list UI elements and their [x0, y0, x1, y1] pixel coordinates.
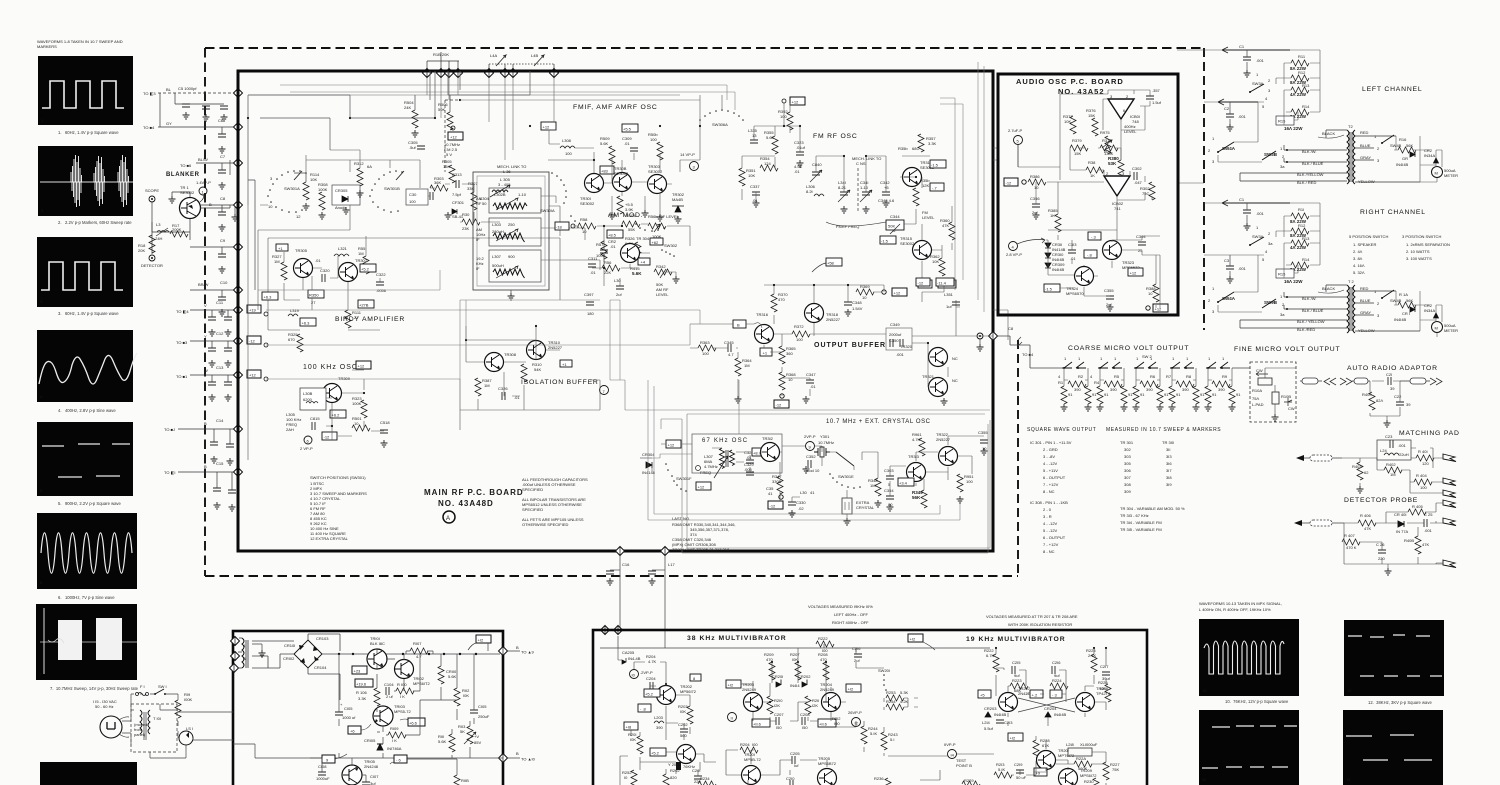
- resistor R401: [1416, 449, 1434, 466]
- diode CR305: [332, 185, 360, 214]
- svg-text:FMRF FREQ: FMRF FREQ: [836, 224, 859, 229]
- feedthrough diamonds top cluster 1: [423, 69, 432, 78]
- svg-text:VOLTAGES MEASURED I9KHz: VOLTAGES MEASURED I9KHz I0%: [808, 604, 873, 609]
- note: voltages measured 19KHz: [808, 604, 873, 625]
- attenuator section 5: [1205, 356, 1242, 411]
- svg-text:-.7: -.7: [932, 186, 937, 191]
- svg-text:4. 400Hz, 2.8V p-p Sine wave: 4. 400Hz, 2.8V p-p Sine wave: [58, 408, 116, 413]
- boxed +12 mv top: [908, 634, 935, 650]
- grounds under fmif row: [609, 212, 616, 219]
- circled 5: [1008, 128, 1023, 167]
- svg-text:F I: F I: [140, 684, 145, 689]
- svg-text:75K: 75K: [1112, 767, 1119, 772]
- svg-text:C2I7: C2I7: [1100, 664, 1109, 669]
- wire rows left ch: [1240, 145, 1344, 185]
- svg-text:85V: 85V: [474, 740, 481, 745]
- svg-text:TR305: TR305: [295, 248, 308, 253]
- transistor TR314: [898, 146, 935, 187]
- svg-text:CR305: CR305: [335, 188, 348, 193]
- svg-text:1.5uf: 1.5uf: [1152, 100, 1162, 105]
- svg-text:I00: I00: [752, 742, 758, 747]
- resistor R51 3.9K: [617, 196, 634, 214]
- capacitor C207: [774, 712, 784, 730]
- transistor TR318: [805, 304, 841, 323]
- svg-text:R35b: R35b: [898, 146, 908, 151]
- svg-text:+12: +12: [1155, 307, 1163, 312]
- label L307: [696, 454, 718, 475]
- svg-text:B: B: [204, 421, 207, 426]
- resistor R243: [881, 732, 898, 750]
- capacitor C303: [884, 468, 894, 487]
- label 4.56: [794, 164, 803, 174]
- resistor R349: [912, 490, 927, 508]
- svg-text:RI09: RI09: [390, 726, 399, 731]
- svg-text:280uH: 280uH: [492, 229, 504, 234]
- svg-text:C6: C6: [218, 118, 224, 123]
- wire: descend to multivibrator: [610, 556, 665, 630]
- svg-text:L30: L30: [800, 490, 807, 495]
- svg-text:+83: +83: [601, 169, 609, 174]
- feedthrough mv top 1: [601, 626, 610, 635]
- resistor R11 right: [1290, 207, 1309, 224]
- wire ps rails: [252, 634, 500, 700]
- svg-text:- .8: - .8: [640, 707, 647, 712]
- svg-text:25: 25: [1138, 248, 1143, 253]
- svg-text:4Λ 22W: 4Λ 22W: [1290, 245, 1307, 250]
- svg-text:+.2: +.2: [1032, 693, 1038, 698]
- resistor bank R209: [764, 652, 775, 680]
- svg-text:BLACK: BLACK: [1322, 131, 1335, 136]
- resistor R307: [467, 181, 478, 210]
- resistor R222 top: [816, 636, 834, 653]
- node C9 row: [190, 238, 238, 273]
- svg-text:CI05: CI05: [478, 704, 487, 709]
- capacitor C355 audio: [1104, 288, 1114, 311]
- wire: long top bus extension: [248, 78, 700, 160]
- svg-text:4.7: 4.7: [416, 654, 422, 659]
- svg-text:IIVP-P: IIVP-P: [944, 742, 956, 747]
- svg-text:L17: L17: [668, 562, 675, 567]
- svg-text:8.2t: 8.2t: [806, 189, 814, 194]
- svg-text:-.8: -.8: [1087, 253, 1092, 258]
- svg-text:2uf: 2uf: [616, 292, 622, 297]
- svg-text:TR307: TR307: [355, 258, 368, 263]
- svg-text:+5.2: +5.2: [645, 692, 654, 697]
- svg-text:C3I3: C3I3: [1068, 242, 1077, 247]
- svg-text:C2I: C2I: [1386, 372, 1392, 377]
- svg-text:C840: C840: [812, 162, 822, 167]
- svg-text:C350: C350: [889, 338, 899, 343]
- svg-text:TR 3I0: TR 3I0: [1162, 440, 1175, 445]
- svg-text:5.6K: 5.6K: [600, 141, 609, 146]
- svg-text:+12: +12: [358, 364, 366, 369]
- coax segment adaptor out: [1400, 378, 1442, 385]
- resistor R365: [779, 346, 796, 364]
- svg-text:IN4I4: IN4I4: [790, 683, 800, 688]
- svg-text:CW: CW: [1256, 368, 1263, 373]
- svg-text:470: 470: [820, 657, 827, 662]
- svg-text:C518: C518: [380, 420, 390, 425]
- resistor R506 50K: [438, 95, 460, 140]
- svg-text:19 KHz MULTIVIBRATOR: 19 KHz MULTIVIBRATOR: [966, 636, 1066, 643]
- resistor R244: [861, 726, 878, 744]
- svg-text:IN4I4B: IN4I4B: [1052, 267, 1065, 272]
- svg-text:3. 100 WATTS: 3. 100 WATTS: [1406, 256, 1432, 261]
- resistor R392: [778, 109, 793, 130]
- svg-text:.01: .01: [746, 455, 752, 460]
- svg-text:R1: R1: [1058, 380, 1064, 385]
- circled 14 test point: [944, 742, 972, 768]
- resistor R230: [1084, 778, 1099, 785]
- resistor R203: [678, 704, 693, 724]
- boxed -12: [247, 336, 268, 347]
- capacitor C342: [880, 180, 890, 195]
- svg-text:BR/W: BR/W: [198, 282, 209, 287]
- svg-text:820: 820: [670, 775, 677, 780]
- svg-text:- 6: - 6: [396, 758, 401, 763]
- svg-text:TO ■4: TO ■4: [1022, 352, 1034, 357]
- svg-text:C207: C207: [774, 712, 784, 717]
- svg-text:+I2: +I2: [910, 637, 916, 642]
- svg-text:R386: R386: [1030, 174, 1040, 179]
- boxed +1 iso: [560, 360, 572, 367]
- wire mv left section: [618, 648, 918, 756]
- svg-text:MECH. LINK TO: MECH. LINK TO: [497, 164, 526, 169]
- svg-text:CRYSTAL: CRYSTAL: [856, 505, 875, 510]
- svg-text:3I6: 3I6: [1166, 461, 1172, 466]
- svg-text:100: 100: [409, 199, 416, 204]
- svg-text:C 26: C 26: [1376, 542, 1385, 547]
- boxed -115: [880, 236, 896, 244]
- svg-text:L4A: L4A: [490, 53, 497, 58]
- resistor R387: [475, 378, 492, 396]
- svg-text:5.6K: 5.6K: [448, 674, 457, 679]
- svg-text:TR316: TR316: [756, 312, 769, 317]
- svg-text:R236: R236: [874, 776, 884, 781]
- capacitor C356: [1030, 196, 1040, 219]
- svg-text:SW20I: SW20I: [878, 668, 890, 673]
- svg-text:5.6K: 5.6K: [632, 271, 642, 276]
- svg-text:2 - 0: 2 - 0: [1043, 507, 1052, 512]
- svg-text:.01: .01: [315, 258, 321, 263]
- svg-text:R11: R11: [1298, 54, 1306, 59]
- svg-text:LEVEL: LEVEL: [1124, 129, 1137, 134]
- svg-text:10K: 10K: [748, 173, 755, 178]
- wire fm rf: [742, 103, 952, 284]
- svg-text:.001: .001: [1238, 266, 1247, 271]
- svg-text:2N5227: 2N5227: [826, 317, 841, 322]
- svg-text:FMIF, AMF AMRF OSC: FMIF, AMF AMRF OSC: [573, 104, 658, 111]
- resistor R229 bottom: [962, 778, 980, 785]
- svg-text:6 - OUTPUT: 6 - OUTPUT: [1043, 475, 1066, 480]
- resistor R369: [856, 284, 874, 300]
- pot 50K box: [886, 220, 904, 234]
- resistor R310: [521, 362, 542, 382]
- svg-text:AM MOD.: AM MOD.: [608, 212, 643, 219]
- svg-text:R 106: R 106: [356, 690, 367, 695]
- resistor R236 bottom: [874, 776, 891, 785]
- svg-text:1M: 1M: [358, 251, 364, 256]
- svg-text:+27B: +27B: [359, 303, 369, 308]
- svg-text:38 KHz MULTIVIBRATOR: 38 KHz MULTIVIBRATOR: [687, 635, 787, 642]
- svg-text:C23: C23: [1385, 434, 1393, 439]
- transistor TR313: [907, 454, 926, 482]
- resistor R400: [1362, 392, 1383, 410]
- capacitor C397: [584, 292, 594, 316]
- svg-text:NO. 43A48D: NO. 43A48D: [438, 499, 494, 508]
- capacitor C3 right: [1224, 255, 1247, 283]
- svg-text:C9: C9: [220, 238, 226, 243]
- diode CR204: [1044, 706, 1067, 717]
- svg-text:2uf: 2uf: [1106, 302, 1112, 307]
- resistor R114: [294, 172, 320, 210]
- resistor R372: [792, 324, 810, 342]
- svg-text:5 POSITION SWITCH: 5 POSITION SWITCH: [1349, 234, 1388, 239]
- transistor TR203: [742, 682, 763, 712]
- detector terminal: [141, 255, 163, 268]
- resistor R16 SW4B left: [1381, 135, 1416, 153]
- wire mv top rail: [600, 630, 990, 652]
- resistor R12: [1290, 70, 1309, 85]
- svg-text:C344: C344: [890, 214, 900, 219]
- svg-text:panel): panel): [134, 732, 146, 737]
- svg-text:4.7K: 4.7K: [648, 659, 657, 664]
- resistor R303 36K: [430, 176, 448, 191]
- svg-text:TR 304: TR 304: [636, 236, 650, 241]
- svg-text:R38: R38: [1088, 160, 1096, 165]
- svg-text:L302B: L302B: [494, 192, 506, 197]
- capacitor C305: [408, 140, 425, 150]
- resistor R305 15K: [442, 159, 455, 183]
- svg-text:1K: 1K: [1090, 173, 1095, 178]
- coax segment adaptor: [1352, 378, 1370, 384]
- audio osc P.C. board outline NO. 43A52: [998, 74, 1178, 315]
- boxed 8: [690, 674, 701, 681]
- svg-text:50 uF: 50 uF: [1016, 775, 1027, 780]
- boxed -1.5 fm: [930, 160, 946, 168]
- wire left ch meter: [1204, 50, 1442, 182]
- terminal -12 67k: [768, 495, 783, 509]
- svg-text:3I8: 3I8: [1166, 475, 1172, 480]
- diode CR1 left: [1396, 152, 1415, 167]
- boxed +6: [348, 724, 371, 734]
- svg-text:C14: C14: [216, 418, 224, 423]
- feedthrough C8: [234, 201, 243, 210]
- svg-text:47K: 47K: [1422, 542, 1429, 547]
- svg-text:+12: +12: [249, 373, 257, 378]
- svg-text:.02: .02: [798, 506, 804, 511]
- svg-text:3I9: 3I9: [1166, 482, 1172, 487]
- capacitor C25: [1424, 512, 1433, 533]
- resistor R403: [1352, 462, 1369, 493]
- svg-text:2 - GRD: 2 - GRD: [1043, 447, 1058, 452]
- svg-text:+12: +12: [698, 485, 706, 490]
- svg-text:+12: +12: [1130, 271, 1138, 276]
- svg-text:39: 39: [1390, 386, 1395, 391]
- svg-text:2. 2.2V p-p Markers, 60Hz Sw: 2. 2.2V p-p Markers, 60Hz Sweep rate: [58, 220, 132, 225]
- resistor R18: [138, 235, 155, 253]
- transistor TR307 birdy: [339, 258, 377, 282]
- svg-text:TR3I2: TR3I2: [762, 436, 774, 441]
- crystal box 100KHz: [300, 388, 326, 410]
- switch SW9B right: [1262, 294, 1285, 317]
- capacitor C304: [1136, 234, 1146, 253]
- label 115-130 VAC: [93, 699, 117, 709]
- svg-text:R10A: R10A: [1252, 388, 1262, 393]
- svg-text:-1.5: -1.5: [931, 163, 939, 168]
- note: last numbers: [672, 516, 736, 552]
- svg-text:C205: C205: [790, 751, 800, 756]
- feedthrough TO A10: [499, 751, 536, 763]
- wire: inner loop upper: [260, 71, 530, 150]
- svg-text:2VP-P: 2VP-P: [804, 434, 816, 439]
- svg-text:BLACK: BLACK: [1322, 286, 1335, 291]
- svg-text:13: 13: [1346, 777, 1351, 782]
- transistor TR322: [936, 432, 958, 466]
- svg-text:MPT6I72: MPT6I72: [1058, 753, 1075, 758]
- resistor R58: [578, 217, 596, 234]
- capacitor C201: [692, 768, 702, 784]
- coax connector pair 1: [1300, 378, 1352, 385]
- svg-text:5. 32Λ: 5. 32Λ: [1353, 270, 1365, 275]
- 67khz box: [692, 434, 782, 473]
- svg-text:7 - +12V: 7 - +12V: [1043, 482, 1059, 487]
- svg-text:R14: R14: [1302, 104, 1310, 109]
- svg-text:SCOPE: SCOPE: [145, 188, 159, 193]
- capacitor C21: [1386, 372, 1395, 391]
- resistor R406: [1358, 513, 1376, 531]
- svg-text:.01: .01: [1070, 256, 1076, 261]
- svg-text:-12: -12: [1006, 181, 1013, 186]
- svg-text:12: 12: [296, 214, 301, 219]
- svg-text:2 uf: 2 uf: [386, 694, 394, 699]
- transistor TR320: [900, 344, 958, 367]
- svg-text:MARKERS: MARKERS: [37, 44, 57, 49]
- svg-text:CF301: CF301: [452, 200, 465, 205]
- transistor TR209: [1037, 748, 1076, 770]
- svg-text:IC 308 - PIN 1 - -1KB: IC 308 - PIN 1 - -1KB: [1030, 500, 1068, 505]
- feedthrough ps left 1: [231, 637, 240, 646]
- svg-text:100: 100: [1420, 485, 1427, 490]
- table: square wave output: [1027, 427, 1221, 494]
- waveform photo 4 (400Hz sine wave): [37, 330, 137, 402]
- svg-text:.01: .01: [590, 270, 596, 275]
- svg-text:5 V: 5 V: [446, 152, 452, 157]
- wire mv box bottom visible: [699, 784, 701, 785]
- transistor TR1 fmif a: [580, 166, 614, 206]
- svg-text:M: M: [1435, 326, 1438, 331]
- svg-text:C8: C8: [1008, 326, 1014, 331]
- boxed +12 tuning: [444, 126, 463, 157]
- waveform photo 8 (cut off at bottom): [40, 762, 137, 785]
- svg-text:TR308: TR308: [504, 352, 517, 357]
- svg-text:R350: R350: [309, 293, 319, 298]
- svg-text:BL: BL: [166, 87, 172, 92]
- table: TR variable list: [1120, 506, 1185, 532]
- svg-text:10. 76KHz, 12V p-p Square: 10. 76KHz, 12V p-p Square wave: [1225, 699, 1289, 704]
- svg-text:IN4I4B: IN4I4B: [1054, 712, 1067, 717]
- resistor R252: [622, 770, 637, 785]
- svg-text:-12: -12: [776, 403, 783, 408]
- feedthrough top last: [550, 69, 559, 78]
- svg-text:L308: L308: [562, 138, 572, 143]
- bridge rectifier CR101-CR104: [283, 636, 329, 670]
- boxed -.7 fm: [930, 183, 944, 191]
- svg-text:CR204: CR204: [1044, 706, 1057, 711]
- svg-text:47K: 47K: [1364, 526, 1371, 531]
- svg-text:TR 3I5 - VARIABLE FM: TR 3I5 - VARIABLE FM: [1120, 527, 1162, 532]
- resistor R327 1M: [272, 254, 287, 280]
- svg-text:.001: .001: [1256, 211, 1265, 216]
- transformer T101 primary box: [131, 704, 177, 752]
- svg-text:METER: METER: [1444, 328, 1458, 333]
- svg-text:SPECIFIED: SPECIFIED: [522, 487, 543, 492]
- circled 7: [600, 386, 609, 395]
- rotary switch SW301B (dotted arc): [369, 170, 404, 213]
- capacitor C330: [788, 500, 806, 517]
- svg-text:R222: R222: [818, 636, 828, 641]
- waveform photo 10: [1199, 619, 1299, 696]
- transistor TR315: [900, 236, 932, 260]
- svg-text:C337: C337: [750, 184, 760, 189]
- svg-text:SW30IA: SW30IA: [540, 208, 555, 213]
- svg-text:R57: R57: [596, 242, 604, 247]
- svg-text:POINT B: POINT B: [956, 763, 972, 768]
- svg-text:- 3: - 3: [1052, 693, 1057, 698]
- svg-text:82Λ: 82Λ: [1376, 398, 1383, 403]
- resistor R377: [1063, 114, 1076, 134]
- svg-text:C330: C330: [796, 500, 806, 505]
- svg-text:MPS6I72: MPS6I72: [1080, 773, 1097, 778]
- svg-text:3. 8Λ: 3. 8Λ: [1353, 256, 1363, 261]
- switch SW3A left: [1249, 72, 1271, 109]
- svg-text:3a: 3a: [1268, 241, 1273, 246]
- svg-text:C2I0: C2I0: [786, 776, 795, 781]
- svg-text:+1: +1: [278, 246, 283, 251]
- svg-text:91: 91: [1236, 392, 1241, 397]
- svg-text:10.7 MHz + EXT. CRYSTAL OSC: 10.7 MHz + EXT. CRYSTAL OSC: [826, 419, 931, 425]
- boxed -3 19k: [1050, 690, 1062, 698]
- svg-text:L2I8: L2I8: [1066, 742, 1075, 747]
- transistor TR102: [395, 660, 431, 687]
- boxed +12 fmrf: [782, 97, 805, 105]
- svg-text:CA205: CA205: [622, 650, 635, 655]
- svg-text:303: 303: [1124, 454, 1131, 459]
- transistor TR101: [367, 636, 387, 669]
- svg-text:BIRDY AMPLIFIER: BIRDY AMPLIFIER: [335, 316, 405, 323]
- capacitor block C349 C350: [886, 322, 912, 357]
- wire ps mid: [255, 643, 503, 758]
- boxed +6.6: [400, 718, 425, 726]
- boxed -18: [555, 222, 575, 230]
- diode CR302: [672, 192, 685, 223]
- switch SW4A left: [1208, 136, 1236, 164]
- svg-text:SE3002: SE3002: [648, 169, 663, 174]
- pot R342: [654, 264, 672, 278]
- attenuator section 1: [1058, 356, 1097, 411]
- svg-text:+1: +1: [763, 351, 768, 356]
- svg-text:67 KHz OSC: 67 KHz OSC: [702, 438, 748, 444]
- svg-text:WITH 200K ISOLATION RESISTO: WITH 200K ISOLATION RESISTOR: [1008, 622, 1072, 627]
- svg-text:+19.6: +19.6: [356, 682, 367, 687]
- resistor R208: [818, 652, 829, 680]
- svg-text:CRI05: CRI05: [364, 738, 376, 743]
- capacitor C2: [1224, 102, 1247, 131]
- svg-text:RF: RF: [476, 201, 482, 206]
- boxed component L218: [1066, 742, 1098, 756]
- node V +19 row: [176, 300, 238, 336]
- svg-text:+5.2: +5.2: [361, 267, 370, 272]
